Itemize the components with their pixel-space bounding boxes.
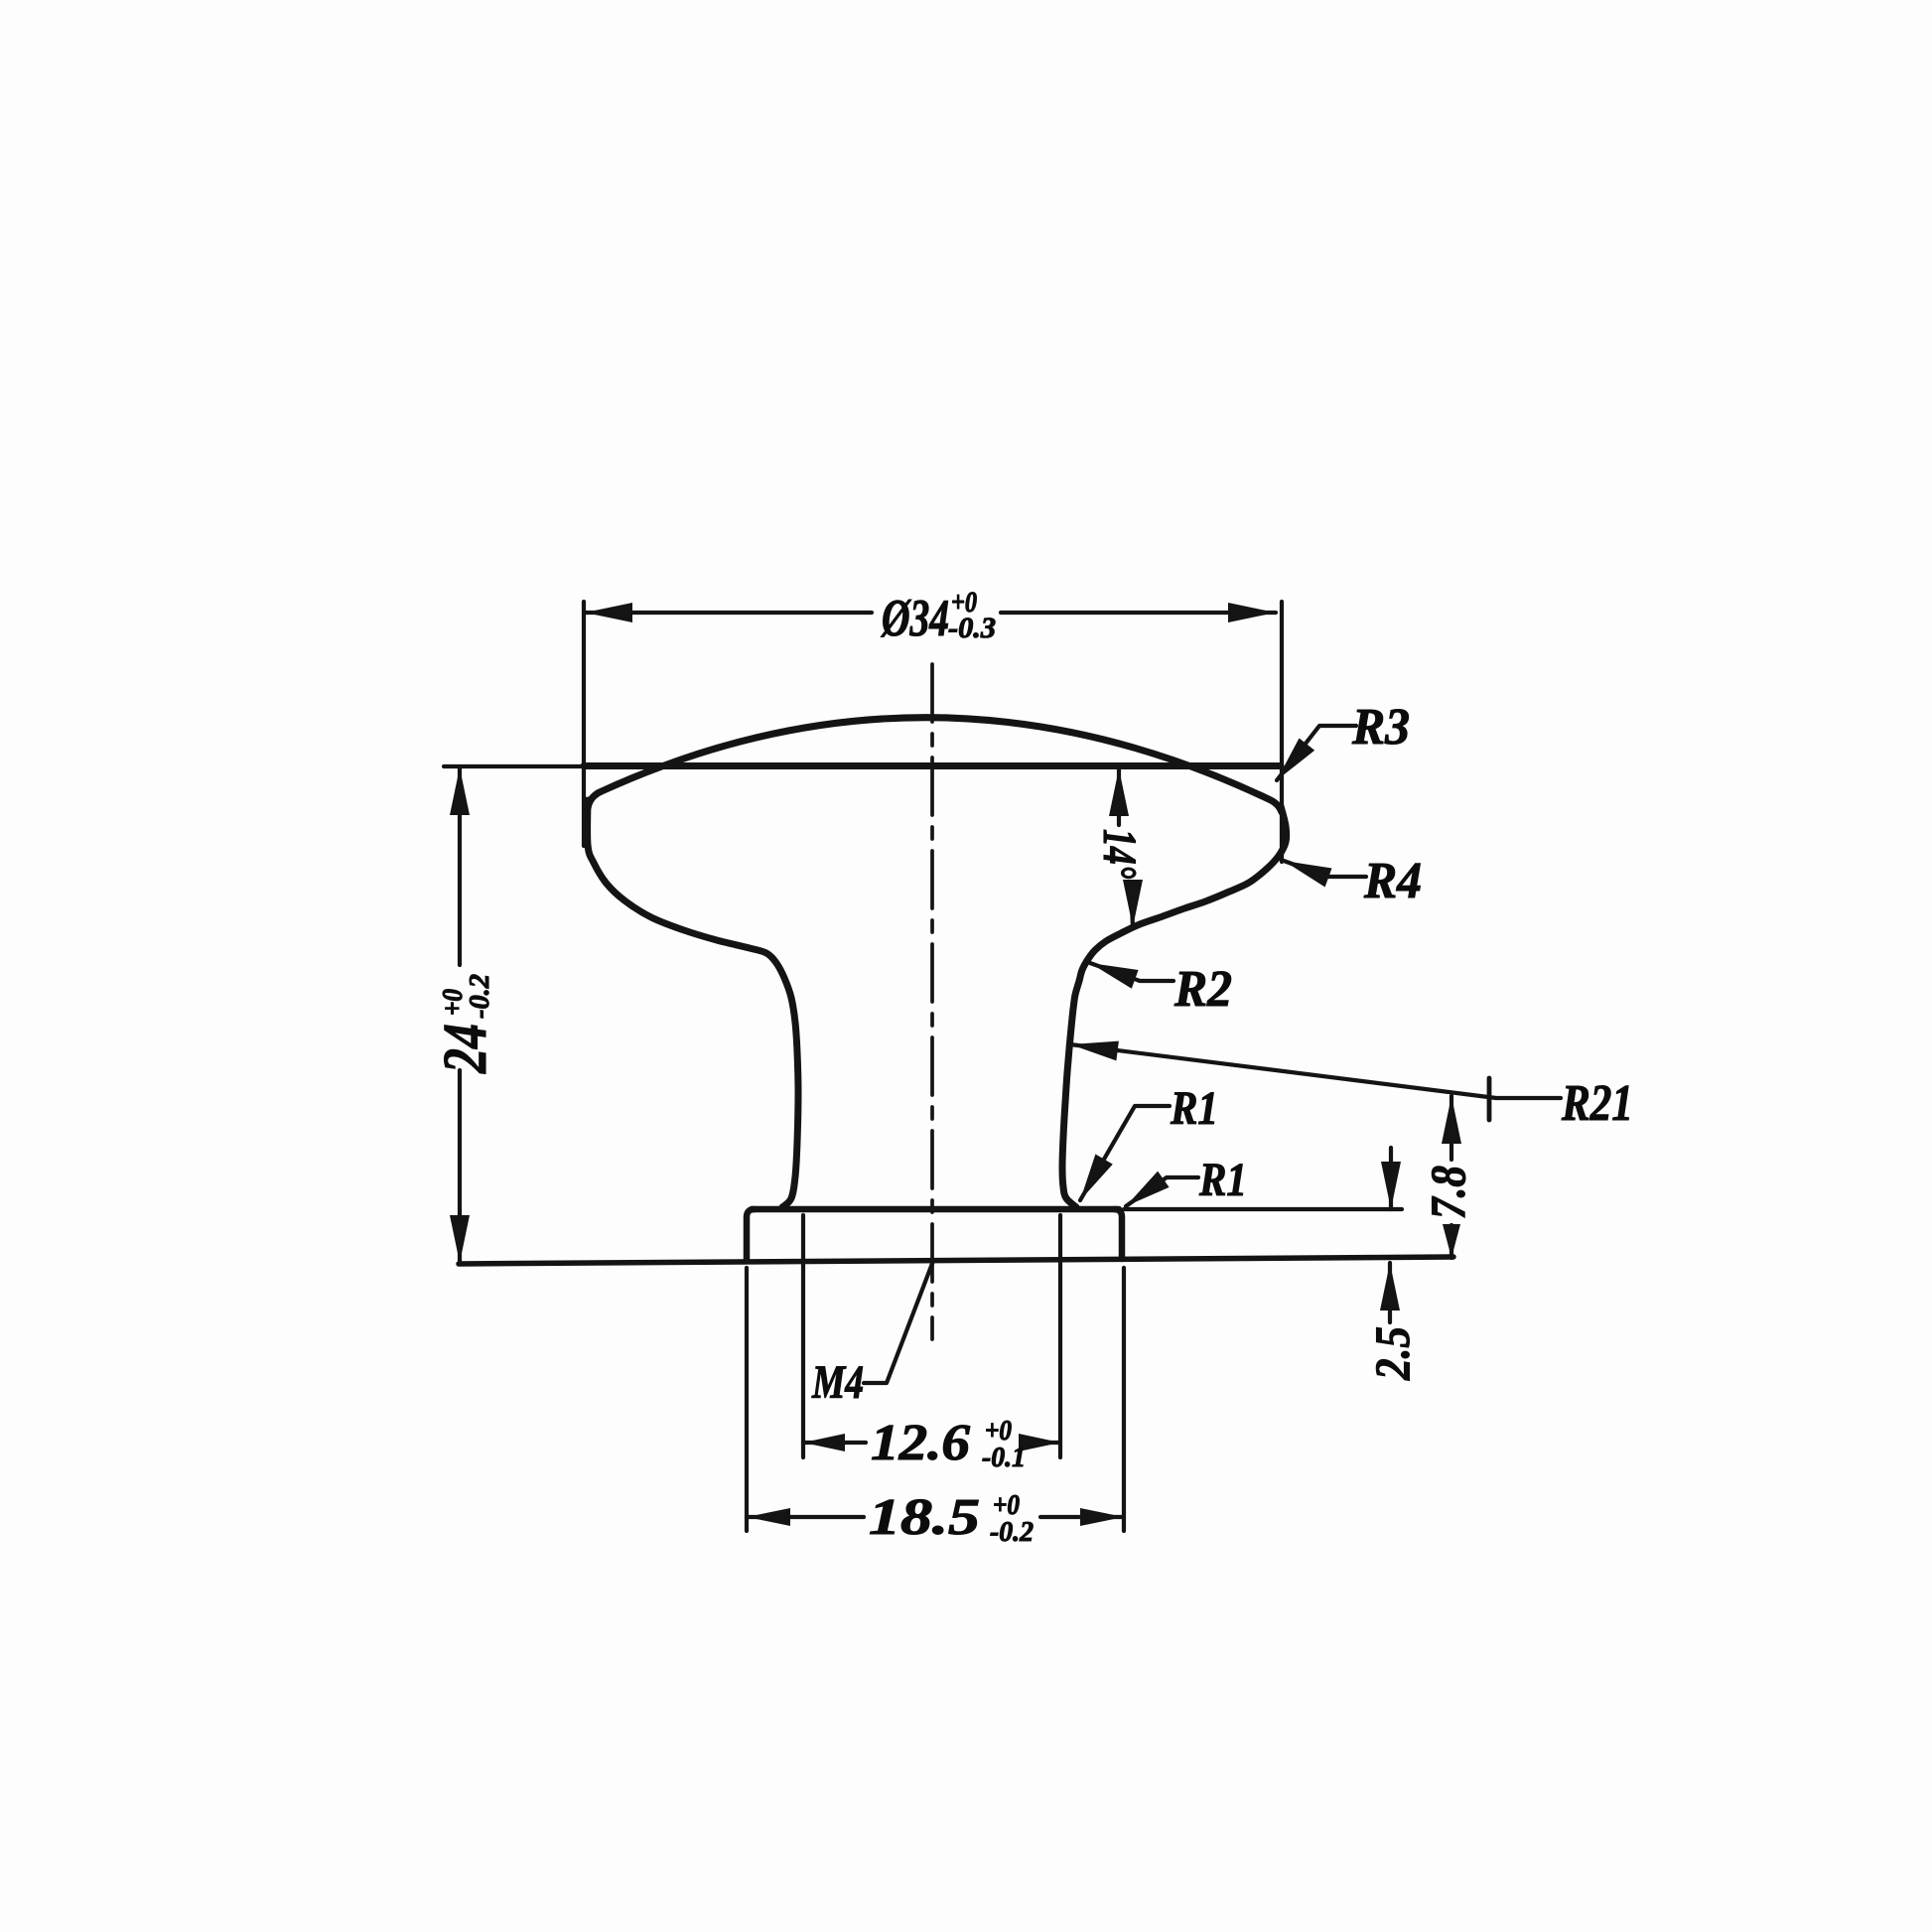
- svg-text:R4: R4: [1363, 853, 1422, 909]
- svg-text:12.6: 12.6: [871, 1415, 970, 1471]
- svg-text:24: 24: [432, 1024, 499, 1074]
- svg-text:18.5: 18.5: [869, 1489, 980, 1546]
- svg-text:R3: R3: [1351, 699, 1410, 756]
- svg-text:-0.2: -0.2: [990, 1516, 1034, 1548]
- svg-text:M4: M4: [811, 1356, 864, 1409]
- svg-text:R1: R1: [1170, 1082, 1218, 1135]
- svg-text:7.8: 7.8: [1420, 1166, 1475, 1219]
- svg-text:-0.1: -0.1: [982, 1442, 1026, 1473]
- svg-text:-0.2: -0.2: [464, 974, 495, 1019]
- svg-text:R21: R21: [1561, 1075, 1633, 1132]
- svg-text:R1: R1: [1198, 1154, 1247, 1206]
- svg-text:2.5: 2.5: [1364, 1326, 1420, 1381]
- svg-text:-0.3: -0.3: [948, 612, 996, 644]
- svg-text:Ø34: Ø34: [881, 590, 949, 647]
- svg-text:R2: R2: [1173, 961, 1232, 1018]
- svg-text:14°: 14°: [1093, 829, 1146, 879]
